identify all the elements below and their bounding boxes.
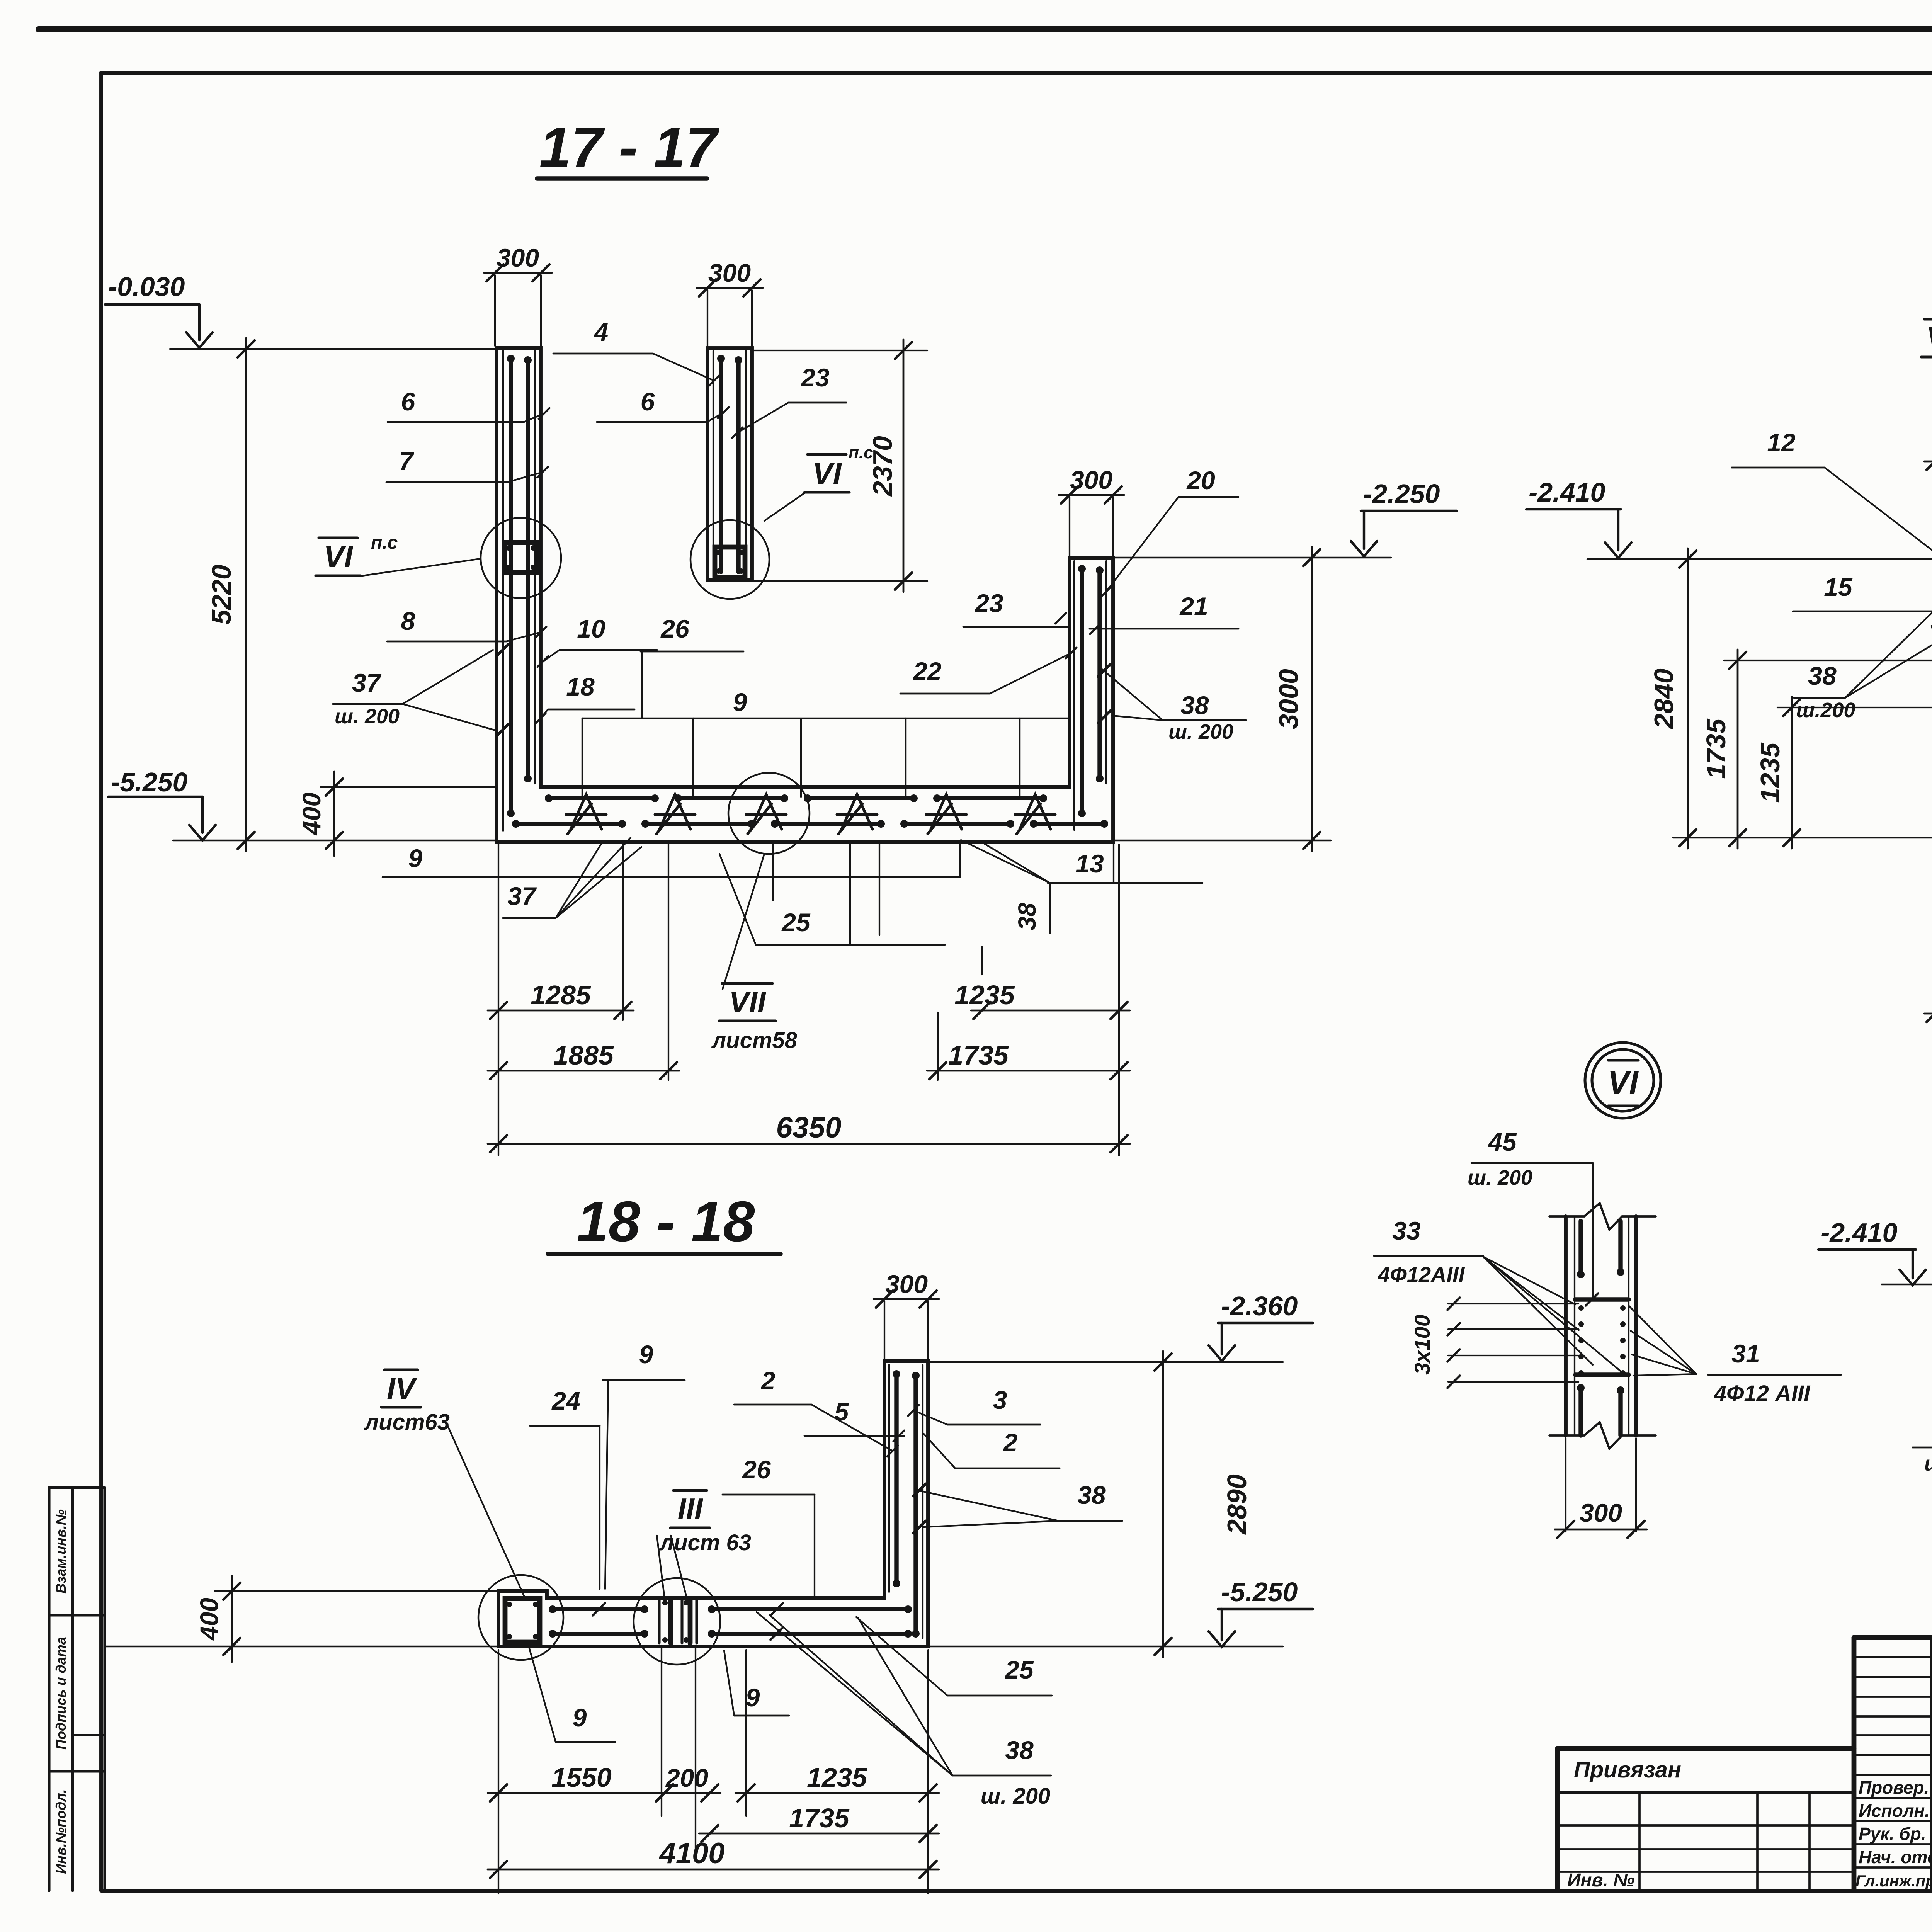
svg-text:4: 4	[594, 318, 609, 346]
svg-text:Рук. бр.: Рук. бр.	[1859, 1824, 1926, 1844]
detail VI bubble	[1585, 1043, 1661, 1118]
detail VI top break line	[1549, 1203, 1656, 1230]
svg-text:21: 21	[1179, 592, 1208, 621]
svg-text:22: 22	[912, 657, 942, 685]
right wall rebar bar 20	[1080, 569, 1084, 813]
outer top border line	[39, 26, 1932, 32]
svg-text:ш.200: ш.200	[1796, 699, 1855, 722]
svg-text:15: 15	[1824, 573, 1853, 601]
svg-text:200: 200	[665, 1764, 708, 1792]
svg-text:7: 7	[399, 447, 415, 475]
detail VI column outline	[1564, 1216, 1568, 1435]
svg-text:18 - 18: 18 - 18	[577, 1190, 755, 1253]
dimension 300 right wall	[1059, 494, 1124, 496]
svg-text:V: V	[1926, 321, 1932, 355]
middle wall stirrup detail VI p.s.	[715, 547, 745, 577]
18-18 slab upper rebar row	[553, 1607, 645, 1611]
dimension 300 19-19 left wall	[1924, 461, 1932, 463]
slab lower rebar row	[516, 822, 622, 826]
svg-text:2370: 2370	[867, 436, 898, 497]
18-18 left level lines	[215, 1590, 498, 1592]
svg-text:3x100: 3x100	[1410, 1315, 1434, 1375]
svg-text:VII: VII	[729, 985, 766, 1019]
dimension 1735 18-18	[699, 1833, 939, 1835]
svg-text:Гл.инж.пр.: Гл.инж.пр.	[1855, 1872, 1932, 1890]
18-18 detail circle III	[634, 1578, 720, 1665]
section 18-18 L-shaped wall and slab outline	[498, 1361, 928, 1646]
svg-text:9: 9	[408, 844, 423, 872]
right wall rebar bar 21	[1097, 570, 1102, 779]
svg-text:-5.250: -5.250	[1221, 1577, 1298, 1607]
detail VI stirrup splice zone	[1575, 1297, 1629, 1301]
svg-text:Нач. отд.: Нач. отд.	[1859, 1847, 1932, 1867]
left wall rebar bar 7	[526, 360, 530, 779]
svg-text:лист58: лист58	[711, 1028, 798, 1053]
svg-text:6350: 6350	[776, 1111, 841, 1144]
18-18 detail III bar cluster	[658, 1600, 660, 1643]
svg-text:Провер.: Провер.	[1859, 1777, 1929, 1798]
svg-text:Инв. №: Инв. №	[1567, 1870, 1634, 1891]
svg-text:6: 6	[641, 387, 655, 416]
svg-text:-2.360: -2.360	[1221, 1291, 1298, 1321]
svg-text:4Ф12АIII: 4Ф12АIII	[1378, 1262, 1465, 1287]
svg-text:ш. 200: ш. 200	[335, 705, 400, 728]
svg-text:5220: 5220	[206, 565, 236, 625]
right wall stirrup hooks	[1098, 664, 1111, 677]
svg-text:12: 12	[1767, 428, 1796, 457]
18-18 wall rebar face lines	[888, 1365, 890, 1592]
dimension 1735 rotated 19-19	[1737, 650, 1739, 849]
svg-text:1235: 1235	[807, 1762, 867, 1793]
svg-text:4Ф12 АIII: 4Ф12 АIII	[1714, 1381, 1811, 1406]
svg-text:9: 9	[573, 1703, 587, 1732]
left wall detail circle	[481, 518, 561, 598]
dimension 400 slab thickness	[333, 772, 335, 856]
left wall stirrup hooks	[496, 644, 509, 656]
dimension 4100 19-19	[1924, 1013, 1932, 1015]
svg-text:38: 38	[1013, 903, 1041, 930]
dimension 5220 left	[245, 338, 247, 851]
svg-text:24: 24	[551, 1386, 580, 1415]
svg-text:300: 300	[497, 243, 539, 272]
svg-text:300: 300	[1070, 466, 1112, 494]
18-18 wall stirrup hooks	[913, 1484, 926, 1496]
svg-text:1735: 1735	[789, 1803, 850, 1833]
svg-text:6: 6	[401, 387, 416, 416]
svg-text:1285: 1285	[531, 980, 591, 1010]
svg-text:лист63: лист63	[364, 1410, 450, 1435]
dimension 1550 18-18	[488, 1792, 675, 1794]
svg-text:4100: 4100	[658, 1837, 724, 1870]
svg-text:38: 38	[1180, 691, 1209, 719]
svg-text:-2.410: -2.410	[1529, 477, 1605, 507]
detail VI rebar bars	[1578, 1221, 1583, 1274]
svg-text:26: 26	[742, 1455, 771, 1484]
svg-text:18: 18	[566, 672, 595, 701]
svg-text:ш. 200: ш. 200	[1924, 1452, 1932, 1475]
right wall rebar face lines	[1073, 561, 1075, 830]
svg-text:38: 38	[1808, 662, 1837, 690]
svg-text:38: 38	[1077, 1481, 1106, 1509]
dimension 200 18-18	[654, 1792, 721, 1794]
dimension 1235 bottom	[971, 1010, 1130, 1012]
svg-text:1550: 1550	[551, 1762, 612, 1793]
svg-text:38: 38	[1005, 1736, 1034, 1764]
svg-text:9: 9	[733, 688, 747, 716]
inner frame top border	[101, 71, 1932, 75]
svg-text:31: 31	[1731, 1339, 1760, 1368]
svg-text:Подпись и дата: Подпись и дата	[53, 1637, 69, 1750]
svg-text:9: 9	[746, 1683, 760, 1712]
18-18 detail IV stirrup block	[505, 1599, 540, 1642]
dimension 2890	[1162, 1351, 1164, 1657]
svg-text:300: 300	[1580, 1498, 1622, 1527]
left margin strip table	[48, 1488, 50, 1891]
dimension 1885 bottom	[488, 1070, 679, 1072]
section 17-17 middle wall outline	[707, 348, 752, 580]
svg-text:23: 23	[974, 589, 1003, 617]
svg-text:IV: IV	[387, 1371, 418, 1405]
dimension 4100 18-18	[488, 1869, 939, 1871]
left wall stirrup detail VI p.s.	[505, 543, 537, 573]
svg-text:-2.250: -2.250	[1363, 479, 1440, 509]
middle wall rebar bars	[719, 359, 723, 572]
svg-text:3: 3	[993, 1386, 1007, 1414]
svg-text:26: 26	[660, 614, 690, 643]
svg-text:300: 300	[708, 259, 751, 287]
svg-text:13: 13	[1075, 849, 1104, 878]
svg-text:45: 45	[1487, 1128, 1517, 1156]
middle wall detail circle	[690, 520, 769, 599]
dimension 1235 rotated 19-19	[1791, 697, 1793, 849]
document number 20132-02 77	[1854, 1635, 1932, 1640]
dimension 300 left wall	[484, 272, 552, 274]
mesh 9 zone grid	[582, 718, 1070, 719]
svg-text:400: 400	[297, 793, 326, 836]
svg-text:VI: VI	[323, 539, 353, 574]
svg-text:1235: 1235	[954, 980, 1015, 1010]
inner frame bottom border	[101, 1889, 1932, 1893]
svg-text:VI: VI	[1607, 1064, 1639, 1100]
svg-text:1735: 1735	[1701, 718, 1731, 779]
svg-text:3000: 3000	[1274, 669, 1304, 729]
extension lines below section 17-17	[498, 844, 499, 1155]
svg-text:ш. 200: ш. 200	[981, 1784, 1051, 1809]
svg-text:17 - 17: 17 - 17	[539, 116, 720, 179]
svg-text:-5.250: -5.250	[111, 767, 188, 797]
dimension 1235 18-18	[735, 1792, 939, 1794]
svg-text:1885: 1885	[553, 1040, 614, 1070]
dimension 1735 bottom	[927, 1070, 1130, 1072]
svg-text:37: 37	[352, 668, 382, 697]
dimension 3000 right	[1311, 547, 1313, 851]
svg-text:2890: 2890	[1222, 1474, 1252, 1535]
18-18 detail circle IV	[478, 1575, 563, 1660]
svg-text:2: 2	[1003, 1428, 1018, 1457]
svg-text:1235: 1235	[1755, 742, 1785, 803]
slab detail circle VII	[728, 773, 810, 854]
svg-text:2: 2	[760, 1366, 776, 1395]
dimension 1285 bottom	[488, 1010, 634, 1012]
svg-text:ш. 200: ш. 200	[1468, 1166, 1532, 1189]
dimension 2370 middle wall	[903, 340, 905, 592]
svg-text:400: 400	[195, 1598, 223, 1641]
svg-text:33: 33	[1392, 1216, 1420, 1245]
dimension 400 18-18	[231, 1576, 233, 1662]
extension lines below 18-18	[498, 1650, 499, 1893]
dimension 300 middle wall	[697, 287, 763, 289]
svg-text:Привязан: Привязан	[1574, 1757, 1681, 1782]
svg-text:Исполн.: Исполн.	[1859, 1801, 1930, 1821]
svg-text:25: 25	[1004, 1655, 1034, 1684]
svg-text:III: III	[677, 1492, 703, 1526]
svg-text:23: 23	[800, 363, 829, 392]
svg-text:9: 9	[639, 1340, 653, 1369]
svg-text:Инв.№подл.: Инв.№подл.	[53, 1789, 69, 1874]
18-18 slab lower rebar row	[553, 1632, 645, 1636]
dimension 300 detail VI	[1555, 1529, 1647, 1531]
svg-text:8: 8	[401, 607, 415, 635]
middle wall rebar face lines	[713, 351, 714, 577]
svg-text:37: 37	[507, 882, 537, 910]
svg-text:ш. 200: ш. 200	[1168, 720, 1233, 743]
svg-text:VI: VI	[812, 456, 842, 490]
left wall rebar face lines	[502, 351, 504, 831]
section 17-17 U-shaped pit walls and base slab outline	[497, 348, 1113, 842]
svg-text:2840: 2840	[1649, 668, 1679, 730]
svg-text:20: 20	[1186, 466, 1215, 495]
dimension 3x100 ladder	[1448, 1303, 1578, 1304]
dimension 2840	[1687, 548, 1689, 849]
dimension 6350 bottom	[488, 1143, 1130, 1145]
svg-text:п.с: п.с	[371, 532, 398, 553]
dimension 300 18-18 wall	[874, 1298, 939, 1300]
svg-text:1735: 1735	[948, 1040, 1009, 1070]
detail VI bottom break line	[1549, 1422, 1656, 1449]
svg-text:5: 5	[835, 1397, 849, 1426]
slab upper rebar row	[549, 796, 655, 800]
svg-text:25: 25	[781, 908, 811, 937]
svg-text:10: 10	[577, 614, 605, 643]
svg-text:300: 300	[885, 1270, 928, 1298]
18-18 wall rebar bars 2 3	[894, 1374, 898, 1583]
svg-text:-0.030: -0.030	[108, 272, 185, 302]
svg-text:-2.410: -2.410	[1821, 1218, 1898, 1248]
inner frame left border	[99, 73, 103, 1891]
left wall rebar bar 6	[509, 359, 513, 813]
slab rebar chair symbols	[566, 794, 606, 834]
svg-text:Взам.инв.№: Взам.инв.№	[53, 1509, 69, 1594]
